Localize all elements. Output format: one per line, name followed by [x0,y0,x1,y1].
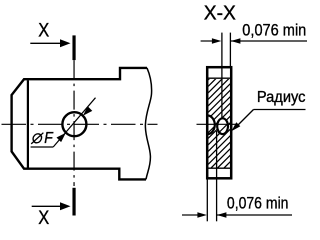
svg-text:0,076 min: 0,076 min [242,21,306,40]
svg-text:X-X: X-X [204,2,236,24]
svg-text:0,076 min: 0,076 min [227,193,289,212]
svg-text:X: X [38,208,49,229]
svg-text:F: F [44,130,54,147]
svg-text:X: X [38,21,49,42]
svg-text:Радиус: Радиус [257,89,306,106]
